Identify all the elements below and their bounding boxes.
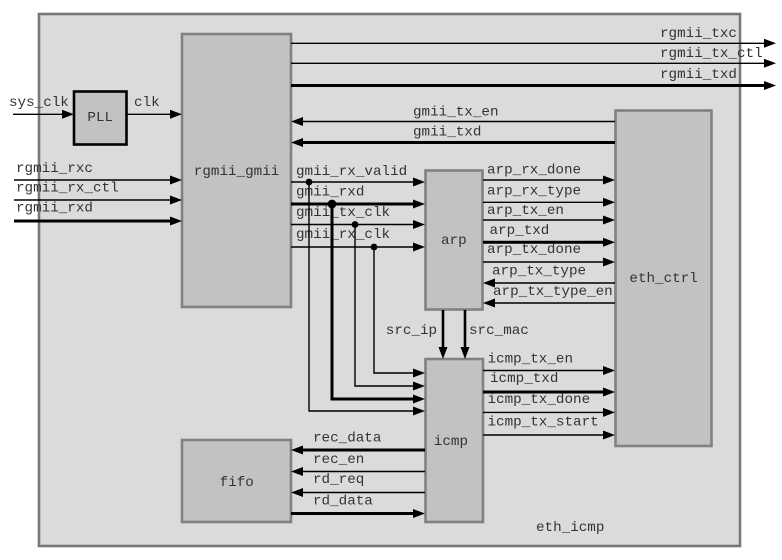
svg-text:arp_tx_type_en: arp_tx_type_en [493, 284, 613, 300]
svg-text:rgmii_rxc: rgmii_rxc [16, 161, 93, 177]
svg-text:sys_clk: sys_clk [9, 95, 69, 111]
wire arp_rx_done arp to eth_ctrl [483, 163, 615, 185]
wire gmii_rx_clk rgmii_gmii to arp [291, 227, 425, 252]
svg-text:icmp_txd: icmp_txd [490, 371, 558, 387]
wire arp_tx_done arp to eth_ctrl [483, 242, 615, 267]
block rgmii_gmii [182, 34, 291, 307]
svg-text:icmp_tx_en: icmp_tx_en [488, 352, 574, 368]
wire gmii_tx_clk branch down to icmp [355, 225, 425, 391]
wire arp_rx_type arp to eth_ctrl [483, 184, 615, 207]
block arp [426, 171, 483, 310]
svg-text:gmii_rx_clk: gmii_rx_clk [296, 227, 390, 243]
wire gmii_rx_clk branch down to icmp [374, 247, 425, 378]
svg-text:eth_icmp: eth_icmp [536, 520, 604, 536]
svg-text:icmp_tx_start: icmp_tx_start [488, 415, 599, 431]
wire icmp_tx_en icmp to eth_ctrl [483, 352, 615, 376]
svg-text:src_mac: src_mac [469, 323, 529, 339]
junction dot gmii_tx_clk [352, 221, 359, 228]
svg-text:fifo: fifo [220, 475, 254, 491]
wire gmii_rx_valid branch down to icmp [309, 182, 425, 416]
junction dot gmii_rxd [328, 200, 337, 209]
svg-text:arp_txd: arp_txd [490, 223, 550, 239]
svg-text:rec_en: rec_en [313, 452, 364, 468]
svg-text:rec_data: rec_data [313, 431, 382, 447]
wire arp_tx_en arp to eth_ctrl [483, 203, 615, 225]
wire rec_en icmp to fifo [291, 452, 425, 476]
svg-text:gmii_rx_valid: gmii_rx_valid [296, 164, 407, 180]
wire rgmii_txd output (bus) [291, 67, 776, 90]
block fifo [182, 440, 291, 522]
block eth_ctrl [616, 111, 712, 447]
svg-text:arp: arp [441, 233, 467, 249]
wire gmii_rxd rgmii_gmii to arp (bus) [291, 185, 425, 209]
wire src_ip arp to icmp [386, 310, 448, 359]
svg-text:gmii_txd: gmii_txd [413, 125, 481, 141]
wire rec_data icmp to fifo (bus) [291, 431, 425, 455]
svg-text:rgmii_txc: rgmii_txc [660, 26, 737, 42]
wire icmp_txd icmp to eth_ctrl (bus) [483, 371, 615, 397]
wire arp_txd arp to eth_ctrl (bus) [483, 223, 615, 247]
wire rd_data fifo to icmp (bus) [291, 494, 425, 519]
svg-text:rgmii_txd: rgmii_txd [660, 67, 737, 83]
wire clk PLL to rgmii_gmii [127, 95, 183, 119]
wire gmii_tx_en eth_ctrl to rgmii_gmii [291, 105, 615, 127]
svg-text:arp_tx_done: arp_tx_done [487, 242, 581, 258]
wire gmii_rx_valid rgmii_gmii to arp [291, 164, 425, 187]
wire rgmii_rx_ctl input [14, 181, 182, 205]
block icmp [426, 359, 484, 522]
svg-text:PLL: PLL [87, 110, 113, 126]
svg-text:icmp_tx_done: icmp_tx_done [488, 392, 591, 408]
junction dot gmii_rx_valid [306, 179, 313, 186]
wire rd_req icmp to fifo [291, 472, 425, 497]
svg-text:gmii_tx_en: gmii_tx_en [413, 105, 499, 121]
wire icmp_tx_start icmp to eth_ctrl [483, 415, 615, 440]
svg-text:arp_rx_done: arp_rx_done [487, 163, 581, 179]
svg-text:rd_data: rd_data [313, 494, 373, 510]
svg-text:rgmii_rxd: rgmii_rxd [16, 201, 93, 217]
wire rgmii_txc output [291, 26, 776, 48]
wire rgmii_rxd input (bus) [14, 201, 182, 226]
wire rgmii_tx_ctl output [291, 46, 776, 68]
svg-text:rgmii_rx_ctl: rgmii_rx_ctl [16, 181, 119, 197]
svg-text:src_ip: src_ip [386, 323, 437, 339]
block PLL [74, 92, 127, 145]
wire gmii_tx_clk rgmii_gmii to arp [291, 205, 425, 229]
wire src_mac arp to icmp [461, 310, 529, 359]
svg-text:arp_tx_en: arp_tx_en [487, 203, 564, 219]
svg-text:icmp: icmp [434, 434, 468, 450]
wire arp_tx_type eth_ctrl to arp [483, 264, 615, 288]
wire rgmii_rxc input [14, 161, 182, 185]
svg-text:gmii_tx_clk: gmii_tx_clk [296, 205, 390, 221]
svg-text:eth_ctrl: eth_ctrl [629, 271, 697, 287]
svg-text:arp_tx_type: arp_tx_type [492, 264, 586, 280]
svg-text:gmii_rxd: gmii_rxd [296, 185, 364, 201]
svg-text:rgmii_tx_ctl: rgmii_tx_ctl [660, 46, 763, 62]
junction dot gmii_rx_clk [371, 244, 378, 251]
svg-text:clk: clk [134, 95, 160, 111]
svg-text:arp_rx_type: arp_rx_type [487, 184, 581, 200]
wire gmii_txd eth_ctrl to rgmii_gmii (bus) [291, 125, 615, 148]
wire arp_tx_type_en eth_ctrl to arp [483, 284, 615, 308]
wire gmii_rxd branch down to icmp (bus) [332, 204, 425, 404]
wire icmp_tx_done icmp to eth_ctrl [483, 392, 615, 417]
svg-text:rgmii_gmii: rgmii_gmii [194, 164, 280, 180]
wire sys_clk input [9, 95, 74, 119]
svg-text:rd_req: rd_req [313, 472, 364, 488]
